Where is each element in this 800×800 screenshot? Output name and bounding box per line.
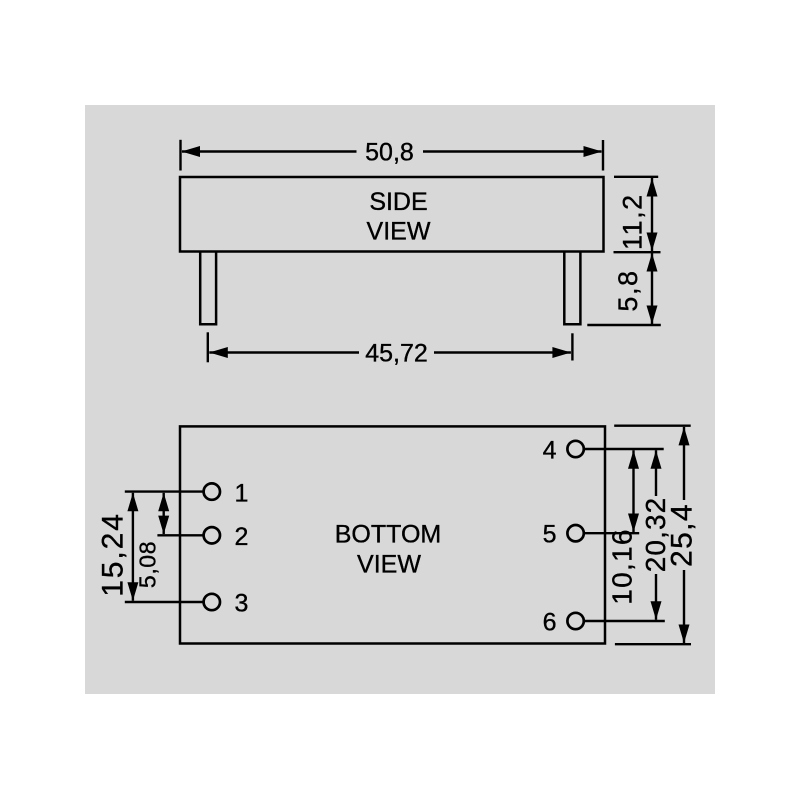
gray drawing panel: [85, 105, 715, 694]
svg-text:50,8: 50,8: [365, 138, 414, 166]
pin 6 pad: [567, 613, 583, 629]
dimension 10,16: [607, 450, 640, 605]
dimension 50,8: [181, 138, 604, 170]
bottom view label: [335, 521, 441, 579]
side view right pin: [564, 252, 580, 324]
pin 1 lead wire: [125, 490, 212, 492]
pin 5 lead wire: [576, 532, 640, 534]
dimension 5,08: [135, 493, 170, 588]
svg-text:2: 2: [235, 523, 249, 551]
bottom view body: [180, 426, 605, 643]
svg-text:SIDE: SIDE: [369, 188, 427, 216]
pin 2 lead wire: [157, 534, 211, 536]
svg-text:VIEW: VIEW: [357, 551, 421, 579]
pin 5 pad: [567, 525, 583, 541]
dimension 20,32: [640, 450, 671, 620]
svg-text:5,08: 5,08: [135, 541, 161, 588]
svg-text:11,2: 11,2: [617, 193, 647, 250]
pin 3 lead wire: [125, 601, 212, 603]
pin 1 pad: [204, 483, 220, 499]
svg-text:45,72: 45,72: [365, 339, 428, 367]
dimension 11,2: [614, 177, 661, 252]
dimension 5,8: [587, 253, 661, 325]
dimension 45,72: [208, 332, 573, 367]
svg-text:15,24: 15,24: [97, 512, 130, 597]
svg-text:5,8: 5,8: [613, 269, 643, 311]
svg-text:10,16: 10,16: [607, 528, 638, 605]
side view label: [367, 188, 431, 245]
side view body: [180, 177, 604, 252]
pin 6 lead wire: [576, 620, 665, 622]
dimension 15,24: [97, 493, 139, 601]
svg-text:3: 3: [235, 590, 249, 618]
dimension 25,4: [614, 426, 698, 645]
pin 3 pad: [204, 594, 220, 610]
svg-text:BOTTOM: BOTTOM: [335, 521, 441, 549]
side view left pin: [200, 252, 216, 324]
pin 4 pad: [567, 441, 583, 457]
svg-text:25,4: 25,4: [666, 503, 699, 567]
svg-text:6: 6: [543, 608, 557, 636]
svg-text:4: 4: [543, 436, 557, 464]
svg-text:VIEW: VIEW: [367, 218, 431, 246]
svg-text:5: 5: [543, 521, 557, 549]
pin 4 lead wire: [576, 448, 664, 450]
svg-text:1: 1: [235, 480, 249, 508]
pin 2 pad: [204, 527, 220, 543]
